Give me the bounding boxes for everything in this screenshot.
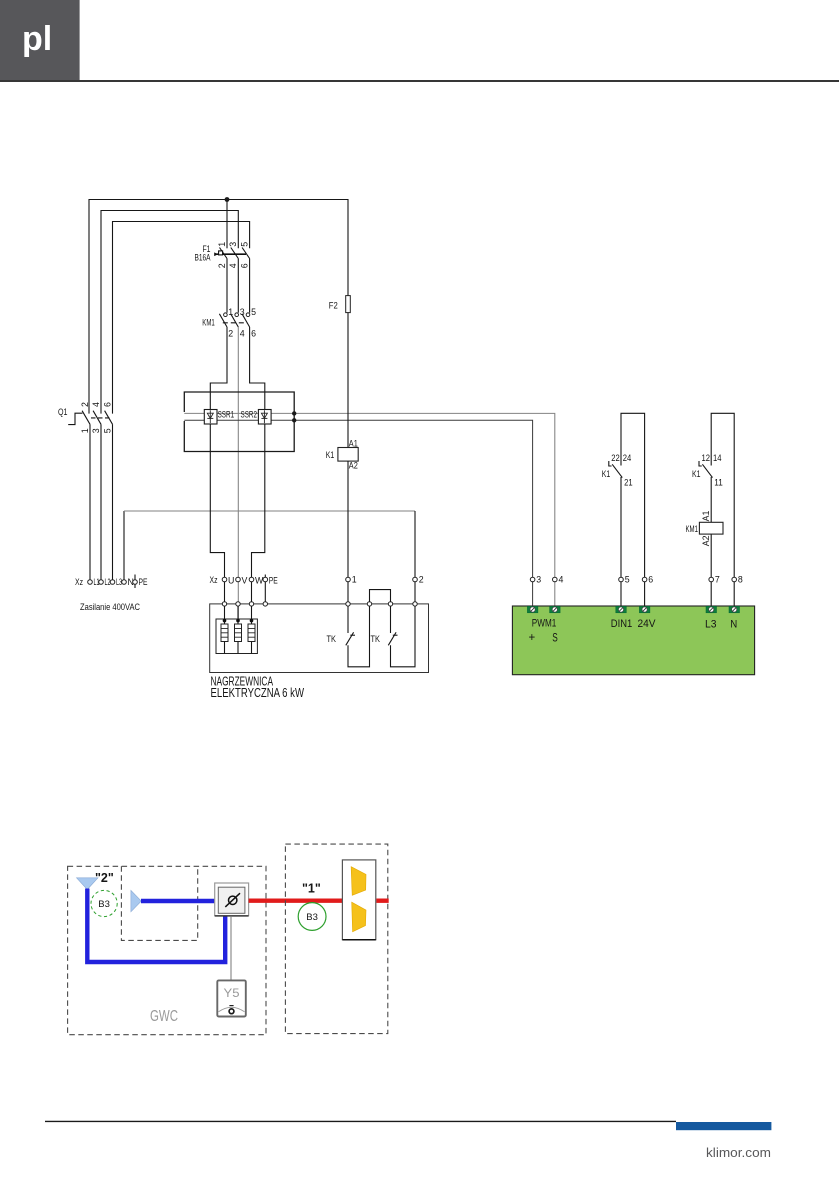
contactor KM1 pole 5-6 — [246, 313, 250, 317]
SSR enclosure — [184, 392, 294, 452]
exchanger blade bottom — [352, 902, 366, 932]
svg-text:12: 12 — [702, 453, 711, 463]
heater entry node 2 — [413, 602, 417, 606]
wire L3 top run — [113, 222, 250, 414]
heater entry node U — [222, 602, 226, 606]
pipe red left — [249, 899, 343, 903]
pipe blue loop — [87, 889, 225, 963]
wire TK1 to node a — [348, 606, 370, 667]
svg-text:6: 6 — [102, 402, 112, 407]
svg-text:+: + — [529, 632, 536, 644]
svg-text:Y5: Y5 — [224, 988, 240, 1000]
wire L1 to terminal — [89, 424, 91, 582]
pipe red right — [376, 899, 388, 903]
contact K1 22-24-21 gap — [620, 466, 623, 478]
svg-text:B3: B3 — [98, 899, 110, 910]
breaker Q1 handle — [68, 413, 82, 424]
svg-text:4: 4 — [240, 328, 245, 338]
svg-text:4: 4 — [228, 263, 238, 268]
controller terminal block 4 — [550, 606, 561, 613]
terminal U — [222, 577, 227, 582]
wire F2 to K1 coil — [347, 313, 349, 448]
relay coil K1 — [338, 448, 358, 462]
terminal 2 — [413, 577, 418, 582]
svg-text:TK: TK — [371, 634, 381, 644]
terminal L3 — [110, 580, 115, 585]
logo pl box — [0, 0, 80, 80]
damper actuator inner box — [218, 887, 245, 913]
node SSR output upper — [292, 411, 296, 415]
svg-text:2: 2 — [419, 575, 424, 585]
terminal 7 — [709, 577, 714, 582]
svg-text:Xz: Xz — [75, 577, 83, 587]
thermal contact TK1 — [347, 606, 349, 633]
breaker Q1 pole 5-6 — [105, 411, 113, 425]
wire PE stub left — [134, 575, 136, 589]
svg-text:U: U — [228, 576, 234, 586]
controller terminal block 7 — [706, 606, 717, 613]
svg-text:Xz: Xz — [210, 575, 218, 585]
terminal V — [236, 577, 241, 582]
breaker Q1 link — [91, 417, 110, 419]
svg-text:21: 21 — [624, 477, 633, 487]
header rule — [0, 80, 839, 82]
heater element bank frame — [216, 619, 257, 654]
svg-text:3: 3 — [91, 428, 101, 433]
svg-text:SSR2: SSR2 — [241, 410, 258, 420]
svg-text:PWM1: PWM1 — [532, 618, 557, 630]
right dashed enclosure — [285, 844, 387, 1034]
heater element R-U — [224, 606, 226, 624]
svg-text:4: 4 — [559, 575, 564, 585]
svg-text:A1: A1 — [349, 438, 358, 448]
thermal contact TK2 — [390, 606, 392, 633]
controller terminal block 6 — [639, 606, 650, 613]
wire TK bridge — [370, 590, 391, 602]
svg-text:7: 7 — [715, 575, 720, 585]
svg-text:24V: 24V — [638, 618, 657, 630]
svg-text:1: 1 — [228, 307, 233, 317]
controller terminal block 5 — [616, 606, 627, 613]
svg-text:1: 1 — [352, 575, 357, 585]
svg-text:PE: PE — [139, 577, 148, 587]
svg-text:"1": "1" — [302, 882, 321, 896]
svg-text:5: 5 — [240, 242, 250, 247]
contact K1 12-14-11 gap — [710, 466, 713, 478]
svg-text:22: 22 — [611, 453, 620, 463]
sensor B3 dashed circle — [91, 890, 117, 916]
wire L2 top run — [101, 211, 238, 414]
fuse F1 link bar — [216, 253, 246, 255]
controller terminal block 3 — [527, 606, 538, 613]
svg-text:5: 5 — [102, 428, 112, 433]
svg-text:Zasilanie 400VAC: Zasilanie 400VAC — [80, 602, 140, 613]
svg-text:V: V — [242, 576, 248, 586]
terminal PE — [133, 580, 138, 585]
inner dashed enclosure — [121, 866, 197, 940]
fuse F2 body — [346, 296, 351, 313]
wire F1 pole1 drop — [226, 200, 228, 249]
terminal L2 — [99, 580, 104, 585]
fuse F1 pole 3-4 — [231, 248, 239, 313]
heater entry node 1 — [346, 602, 350, 606]
wire PE stub heater — [264, 575, 266, 604]
breaker Q1 pole 1-2 — [82, 411, 90, 425]
svg-text:L3: L3 — [705, 619, 717, 631]
fuse F1 mechanism square — [219, 251, 223, 255]
svg-text:8: 8 — [738, 575, 743, 585]
terminal 6 — [642, 577, 647, 582]
contactor KM1 pole 1-2 — [224, 313, 228, 317]
wire terminal 2 riser — [414, 511, 416, 604]
svg-text:A2: A2 — [701, 535, 711, 546]
wire N horizontal run — [124, 510, 415, 512]
wire L2 to terminal — [100, 424, 102, 582]
svg-text:2: 2 — [80, 402, 90, 407]
svg-text:pl: pl — [22, 20, 52, 58]
node junction L1/F1 — [225, 197, 230, 202]
SSR control wire upper — [184, 413, 555, 606]
wire V phase grey run — [237, 327, 239, 621]
svg-text:B3: B3 — [306, 912, 318, 923]
svg-text:6: 6 — [240, 263, 250, 268]
contact K1 (KM1 branch) hook — [699, 461, 702, 466]
svg-text:W: W — [255, 576, 264, 586]
damper actuator outer box — [215, 883, 249, 916]
svg-text:PE: PE — [269, 576, 278, 586]
svg-text:4: 4 — [91, 402, 101, 407]
footer rule — [45, 1120, 676, 1122]
svg-text:14: 14 — [713, 453, 722, 463]
svg-text:SSR1: SSR1 — [218, 410, 235, 420]
GWC dashed enclosure — [68, 866, 266, 1034]
wire L1 top run — [89, 200, 348, 414]
svg-text:KM1: KM1 — [202, 318, 215, 328]
node SSR output lower — [292, 418, 296, 422]
wire SSR1 output to heater U — [210, 424, 224, 604]
svg-text:DIN1: DIN1 — [611, 618, 633, 630]
svg-text:6: 6 — [648, 575, 653, 585]
heater entry node TK a — [367, 602, 371, 606]
heater entry node TK b — [388, 602, 392, 606]
svg-text:ELEKTRYCZNA 6 kW: ELEKTRYCZNA 6 kW — [211, 685, 305, 700]
terminal 8 — [732, 577, 737, 582]
svg-text:A2: A2 — [349, 461, 358, 471]
svg-text:24: 24 — [623, 453, 632, 463]
svg-text:L3: L3 — [116, 577, 122, 587]
svg-text:K1: K1 — [692, 469, 701, 479]
exchanger blade top — [351, 867, 366, 896]
terminal 4 — [553, 577, 558, 582]
wire N riser — [123, 511, 125, 582]
svg-text:N: N — [730, 619, 737, 631]
pipe blue to damper — [141, 899, 215, 903]
wire L3 N loop — [711, 413, 734, 606]
sensor B3 circle supply — [298, 903, 326, 931]
SSR control wire lower — [184, 420, 532, 606]
terminal 3 — [530, 577, 535, 582]
svg-text:2: 2 — [228, 328, 233, 338]
svg-text:TK: TK — [327, 634, 337, 644]
heater enclosure — [210, 604, 429, 673]
contactor coil KM1 — [699, 522, 723, 534]
svg-text:3: 3 — [240, 307, 245, 317]
svg-text:Q1: Q1 — [58, 407, 68, 417]
breaker Q1 pole 3-4 — [93, 411, 101, 425]
svg-text:A1: A1 — [701, 511, 711, 522]
svg-text:6: 6 — [251, 328, 256, 338]
terminal W — [249, 577, 254, 582]
wire DIN1 24V loop — [621, 413, 645, 606]
wire K1 coil to terminal 1 — [347, 461, 349, 604]
heater element R-W — [251, 606, 253, 624]
exchanger box — [342, 860, 375, 940]
contact K1 (DIN1) hook — [609, 461, 612, 466]
svg-text:2: 2 — [217, 263, 227, 268]
fuse F1 pole 5-6 — [242, 248, 250, 313]
wire SSR2 output to heater W — [252, 424, 265, 604]
svg-text:L2: L2 — [105, 577, 111, 587]
wire actuator Y5 — [230, 916, 232, 981]
heater entry node W — [249, 602, 253, 606]
contact K1 (DIN1) lever — [612, 464, 622, 477]
svg-text:KM1: KM1 — [686, 524, 699, 534]
svg-text:5: 5 — [251, 307, 256, 317]
svg-text:B16A: B16A — [195, 252, 211, 262]
wire TK2 to terminal 2 — [391, 606, 416, 667]
relay SSR1 body — [204, 410, 217, 425]
svg-text:1: 1 — [217, 242, 227, 247]
actuator Y5 box — [217, 980, 246, 1016]
contact K1 (KM1 branch) lever — [702, 464, 712, 477]
svg-text:1: 1 — [80, 428, 90, 433]
fuse F1 release arrow — [214, 252, 218, 256]
footer blue bar — [676, 1122, 771, 1130]
heater element R-V — [237, 606, 239, 624]
fuse F1 pole 1-2 — [220, 248, 228, 313]
terminal N — [122, 580, 127, 585]
controller terminal block 8 — [729, 606, 740, 613]
heater entry node PE — [263, 602, 267, 606]
svg-text:K1: K1 — [326, 450, 335, 460]
heater entry node V — [236, 602, 240, 606]
terminal PE heater — [263, 577, 268, 582]
svg-text:GWC: GWC — [150, 1008, 178, 1025]
actuator Y5 knob — [229, 1009, 234, 1014]
wire L3 to terminal — [112, 424, 114, 582]
svg-text:K1: K1 — [602, 469, 611, 479]
svg-text:5: 5 — [625, 575, 630, 585]
contactor KM1 pole 3-4 — [235, 313, 239, 317]
svg-text:klimor.com: klimor.com — [706, 1146, 771, 1160]
svg-text:3: 3 — [228, 242, 238, 247]
contactor KM1 link — [223, 322, 248, 324]
relay SSR2 body — [258, 410, 271, 425]
controller green box — [512, 606, 754, 675]
svg-text:S: S — [552, 632, 558, 644]
damper symbol — [229, 896, 237, 904]
terminal L1 — [88, 580, 93, 585]
svg-text:11: 11 — [714, 477, 723, 487]
flow triangle small — [131, 890, 141, 911]
terminal 5 — [619, 577, 624, 582]
actuator Y5 dial arc — [219, 1007, 245, 1012]
terminal 1 — [346, 577, 351, 582]
svg-text:F2: F2 — [329, 301, 338, 311]
intake triangle "2" — [77, 878, 99, 890]
svg-text:3: 3 — [536, 575, 541, 585]
